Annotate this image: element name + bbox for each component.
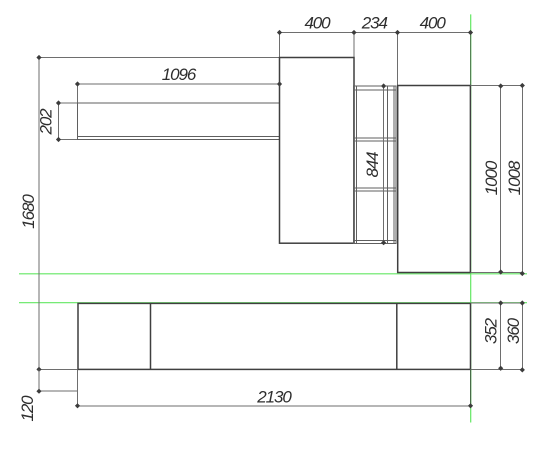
dimension 120 plinth	[39, 369, 78, 391]
tick node 360 bottom	[520, 367, 525, 372]
tick node 360 top	[520, 300, 525, 305]
tick node 2130 left	[75, 403, 80, 408]
tick node 1680 bottom	[36, 367, 41, 372]
tick node 1096 left	[75, 81, 80, 86]
tick node 1008 top	[520, 83, 525, 88]
svg-text:120: 120	[18, 395, 37, 422]
tall cabinet middle (400)	[280, 58, 355, 244]
svg-text:352: 352	[482, 317, 501, 344]
tick node 1008 bottom	[520, 271, 525, 276]
dimension 1680 overall height	[39, 58, 280, 370]
svg-text:844: 844	[363, 152, 382, 178]
tick node 1680 top	[36, 55, 41, 60]
tick node top dim x=470.5	[468, 30, 473, 35]
tick node 352 bottom	[498, 366, 503, 371]
TV stand divider left	[150, 303, 152, 369]
tall cabinet right (400)	[398, 86, 471, 273]
svg-text:1096: 1096	[162, 65, 197, 84]
tick node 1000 top	[498, 83, 503, 88]
svg-text:2130: 2130	[256, 388, 292, 407]
datum line horizontal green upper	[19, 273, 527, 275]
tick node top dim x=397.5	[395, 30, 400, 35]
svg-text:1008: 1008	[505, 160, 524, 195]
tick node top dim x=354	[351, 30, 356, 35]
dimension 2130 overall width	[78, 369, 471, 405]
tick node 2130 right	[468, 403, 473, 408]
open shelf unit (234)	[354, 86, 397, 243]
tick node 202 bottom	[56, 137, 61, 142]
tick node 120 bottom	[36, 389, 41, 394]
dimension 352 / 360 extensions	[471, 303, 523, 369]
dimension 844 shelf unit inner height	[383, 86, 385, 243]
tick node top dim x=279.5	[277, 30, 282, 35]
datum line vertical green (wall axis)	[470, 14, 472, 422]
svg-text:400: 400	[420, 13, 447, 32]
tick node 844 bottom	[381, 240, 386, 245]
TV stand divider right	[396, 303, 398, 369]
dimension 1096 shelf width	[78, 84, 280, 103]
dimension 202 shelf height	[59, 103, 78, 140]
svg-text:1680: 1680	[19, 194, 38, 229]
dimension line top (400/234/400)	[280, 33, 471, 87]
tick node 1000 bottom	[498, 269, 503, 274]
tick node 352 top	[498, 300, 503, 305]
svg-text:360: 360	[504, 317, 523, 344]
svg-text:400: 400	[304, 13, 331, 32]
wall shelf top-left	[78, 103, 280, 140]
svg-text:234: 234	[361, 13, 388, 32]
tick node 844 top	[381, 83, 386, 88]
svg-text:1000: 1000	[482, 160, 501, 195]
extension dark-green segment on vertical datum below TV stand	[470, 369, 472, 405]
svg-text:202: 202	[37, 108, 56, 136]
tick node 202 top	[56, 100, 61, 105]
datum line horizontal green lower	[19, 302, 527, 304]
dimension 1000 / 1008 extensions	[470, 86, 522, 274]
extension overlay dark-green segment on vertical datum	[470, 33, 472, 86]
tick node 1096 right	[277, 81, 282, 86]
TV stand bottom cabinet	[78, 303, 471, 369]
